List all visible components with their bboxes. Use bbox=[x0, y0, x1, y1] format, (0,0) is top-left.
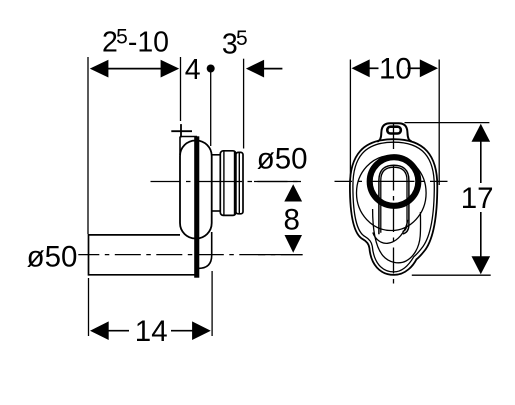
svg-text:8: 8 bbox=[284, 204, 300, 237]
svg-text:10: 10 bbox=[379, 53, 412, 86]
svg-text:17: 17 bbox=[461, 182, 494, 215]
svg-text:4: 4 bbox=[185, 54, 201, 86]
svg-text:25-10: 25-10 bbox=[102, 25, 169, 58]
svg-text:ø50: ø50 bbox=[27, 240, 78, 273]
svg-text:ø50: ø50 bbox=[257, 143, 308, 176]
svg-text:14: 14 bbox=[135, 315, 168, 348]
